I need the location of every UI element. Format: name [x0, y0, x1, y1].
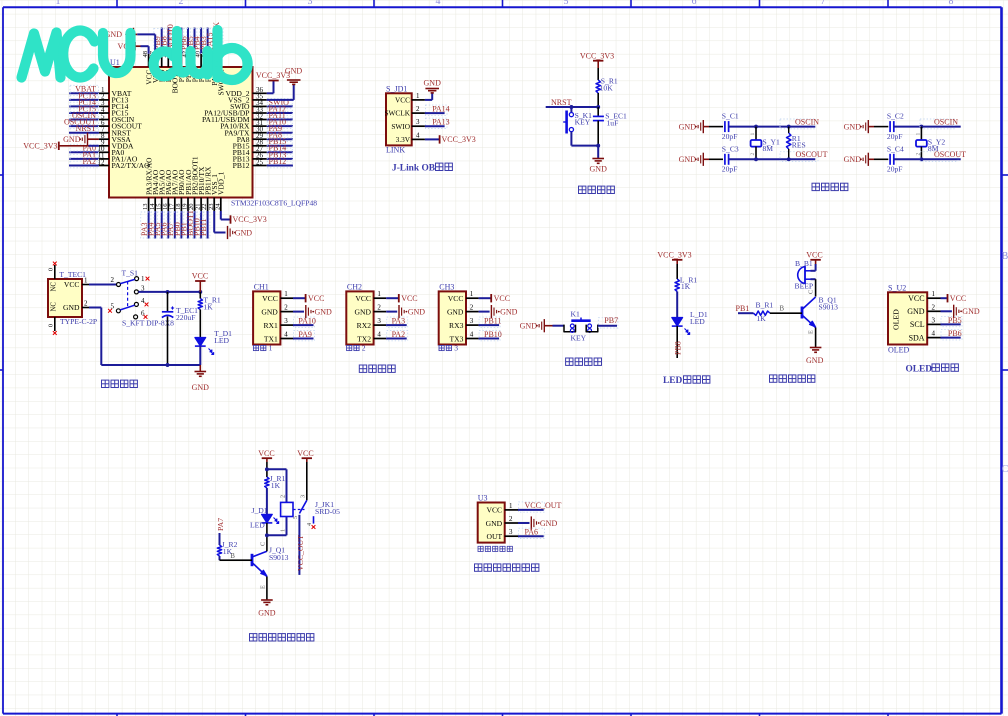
ground relay circuit	[258, 600, 276, 618]
wire rail to GND	[199, 365, 201, 371]
junction cap/key bottom	[596, 144, 600, 148]
svg-text:LED: LED	[663, 376, 683, 386]
svg-text:TYPE-C-2P: TYPE-C-2P	[60, 317, 97, 326]
net label PA9 at CH1 pin4	[293, 330, 315, 341]
wire U1 pin35 to GND	[267, 85, 294, 100]
U1 pin 32 (PA11/USB/DM)	[202, 111, 293, 124]
title metal detector circuit	[475, 564, 539, 571]
svg-text:1uF: 1uF	[607, 118, 619, 127]
svg-text:E: E	[260, 585, 267, 589]
svg-text:PA7: PA7	[216, 518, 225, 531]
svg-text:RES: RES	[792, 141, 806, 150]
svg-text:PA2: PA2	[83, 157, 97, 166]
net label OSCOUT	[780, 152, 818, 162]
U1 pin 16 (PA6/AO)	[160, 169, 173, 238]
svg-text:LED: LED	[214, 336, 229, 345]
svg-text:NRST: NRST	[551, 98, 572, 107]
svg-text:PA3: PA3	[392, 317, 406, 326]
svg-text:PB8: PB8	[673, 341, 682, 355]
svg-text:SWCLK: SWCLK	[384, 109, 410, 118]
U1 pin 5 (OSCIN)	[69, 111, 135, 124]
wire GND to S_C3	[709, 158, 723, 160]
svg-text:3: 3	[509, 528, 513, 536]
wire S_JD1 pin1 to GND	[425, 94, 432, 100]
display S_U2 body	[888, 292, 927, 344]
svg-text:1: 1	[377, 290, 381, 298]
svg-text:NC: NC	[51, 282, 58, 292]
power VCC buzzer	[806, 250, 822, 264]
title reset circuit	[579, 186, 615, 193]
connector T_TEC1 body	[48, 279, 82, 317]
U1 pin 7 (NRST)	[69, 124, 131, 137]
svg-text:LED: LED	[250, 521, 265, 530]
svg-text:VCC_OUT: VCC_OUT	[525, 501, 562, 510]
svg-text:VCC: VCC	[494, 294, 510, 303]
svg-text:1: 1	[470, 290, 474, 298]
svg-text:1: 1	[284, 290, 288, 298]
connector CH2 body	[346, 291, 373, 344]
power VCC at S_U2 pin1	[941, 294, 967, 303]
resistor R1 RES	[787, 127, 806, 160]
wire NRST	[546, 106, 599, 108]
svg-text:B: B	[1002, 251, 1008, 262]
junction R1 bottom	[787, 157, 791, 161]
svg-text:VCC_3V3: VCC_3V3	[23, 141, 57, 150]
svg-text:PA6: PA6	[525, 528, 539, 537]
svg-text:C: C	[260, 542, 267, 546]
wire S_C1 to OSCIN	[729, 126, 816, 128]
svg-text:1: 1	[416, 92, 420, 100]
net label PB10 at CH3 pin4	[479, 330, 502, 341]
CH3 pin 4 (TX3)	[449, 331, 478, 344]
net label PB6 at S_U2 pin4	[941, 329, 963, 340]
net label VCC_OUT at U3 pin1	[518, 501, 562, 512]
GND at U1 pin 8 (VSSA)	[63, 133, 99, 146]
buzzer B_B1 BEEP	[795, 259, 814, 290]
svg-text:U3: U3	[478, 494, 488, 503]
wire key bottom	[571, 132, 598, 146]
svg-text:OSCIN: OSCIN	[795, 117, 819, 126]
svg-text:VCC: VCC	[401, 294, 417, 303]
LED J_D1	[250, 506, 279, 530]
wire GND to S_C4	[874, 158, 888, 160]
svg-text:2: 2	[284, 304, 288, 312]
wire PA7 to J_R2	[219, 533, 221, 545]
U1 pin 30 (PA9/TX)	[224, 124, 292, 137]
power VCC_3V3 at U1 pin 36	[256, 71, 290, 81]
wire U1 pin23 VSS_1 to GND	[214, 211, 225, 233]
U1 pin 23 (VSS_1)	[208, 174, 219, 211]
svg-text:S_JD1: S_JD1	[386, 85, 407, 94]
svg-text:OLED: OLED	[906, 364, 933, 374]
CH3 value label	[439, 343, 458, 352]
key S_K1	[563, 107, 592, 134]
U1 pin 15 (PA5/AO)	[153, 169, 166, 238]
wire VCC to L_R1	[676, 264, 678, 279]
svg-text:20pF: 20pF	[722, 165, 738, 174]
svg-text:1K: 1K	[203, 302, 213, 311]
U1 pin 48 (VCC)	[142, 50, 153, 85]
ground at CH1 pin2	[293, 305, 332, 318]
svg-text:GND: GND	[679, 122, 697, 131]
power VCC relay switch	[297, 449, 313, 462]
svg-text:GND: GND	[520, 322, 538, 331]
wire switch pin3 to VCC rail	[138, 291, 200, 293]
svg-text:S_C2: S_C2	[887, 112, 904, 121]
resistor J_R1 1K	[265, 474, 286, 490]
svg-text:CH1: CH1	[254, 282, 269, 291]
svg-text:OLED: OLED	[892, 309, 901, 330]
svg-text:C: C	[1002, 464, 1008, 475]
ground at S_C4	[844, 153, 874, 166]
svg-text:VCC: VCC	[64, 280, 80, 289]
svg-text:4: 4	[416, 131, 420, 139]
CH3 pin 2 (GND)	[447, 304, 479, 317]
wire junction to relay coil top	[267, 469, 287, 502]
connector S_JD1 body	[386, 93, 412, 145]
U1 pin 47 (VSS)	[149, 50, 160, 83]
power VCC_3V3 reset circuit	[580, 52, 614, 69]
svg-text:2: 2	[111, 276, 115, 284]
net label OSCIN 2	[920, 119, 954, 129]
wire S_C2 to OSCIN	[894, 126, 961, 128]
wire emitter to GND	[266, 577, 268, 600]
svg-text:CH2: CH2	[347, 282, 362, 291]
net label PA6 at U3 pin3	[518, 528, 545, 539]
svg-text:PB5: PB5	[948, 316, 962, 325]
wire K1 to PB7	[598, 318, 618, 328]
svg-text:B_R1: B_R1	[756, 300, 774, 309]
wire J_D1 to junction	[266, 523, 268, 541]
wire T_R1 to T_D1	[199, 310, 201, 338]
wire L_R1 to L_D1	[676, 292, 678, 318]
svg-text:PB11: PB11	[484, 317, 502, 326]
svg-text:PA9: PA9	[298, 330, 312, 339]
CH2 pin 3 (RX2)	[357, 317, 387, 330]
junction at VCC column	[198, 290, 202, 294]
junction relay coil top	[265, 467, 269, 471]
svg-text:GND: GND	[962, 307, 980, 316]
power VCC power-circuit	[192, 272, 208, 292]
svg-text:TX2: TX2	[357, 334, 371, 343]
title buzzer circuit	[770, 375, 815, 382]
svg-text:B_B1: B_B1	[795, 259, 813, 268]
ground at S_C3	[679, 153, 709, 166]
svg-text:J_D1: J_D1	[252, 506, 268, 515]
svg-text:TX3: TX3	[449, 334, 463, 343]
svg-text:SRD-05: SRD-05	[315, 507, 340, 516]
CH3 pin 3 (RX3)	[449, 317, 479, 330]
S_JD1 pin 3 (SWIO)	[391, 118, 425, 131]
svg-text:VCC_OUT: VCC_OUT	[296, 535, 305, 571]
capacitor S_EC1 1uF	[593, 107, 627, 146]
svg-text:VCC: VCC	[908, 294, 924, 303]
ground at CH3 pin2	[479, 305, 518, 318]
ground at S_U2 pin2	[941, 305, 980, 318]
CH1 pin 2 (GND)	[261, 304, 293, 317]
svg-text:1: 1	[56, 0, 61, 7]
svg-text:1K: 1K	[681, 282, 691, 291]
svg-text:GND: GND	[63, 135, 81, 144]
svg-text:VCC_3V3: VCC_3V3	[657, 250, 691, 259]
S_JD1 pin 1 (VCC)	[395, 92, 425, 105]
relay armature contact	[292, 500, 315, 529]
wire pin1 VCC to switch	[89, 284, 117, 286]
connector CH1 body	[253, 291, 280, 344]
svg-text:2: 2	[279, 495, 286, 498]
svg-text:RX2: RX2	[357, 321, 372, 330]
svg-text:S_C3: S_C3	[722, 144, 739, 153]
svg-text:7: 7	[821, 0, 826, 7]
svg-text:GND: GND	[486, 519, 503, 528]
svg-text:KEY: KEY	[571, 334, 587, 343]
title J-Link OB interface	[392, 163, 452, 173]
junction R1 top	[787, 125, 791, 129]
power VCC_3V3 at U1 pin 9 (VDDA)	[23, 141, 99, 150]
svg-text:NRST: NRST	[76, 124, 97, 133]
U3 value label metal detector	[478, 546, 512, 551]
ground at S_JD1 pin1	[424, 79, 442, 93]
crystal S_Y2 8M	[915, 127, 945, 160]
svg-text:GND: GND	[907, 307, 925, 316]
T_TEC1 shield pin top	[48, 262, 57, 279]
svg-text:RX3: RX3	[449, 321, 464, 330]
U1 pin 1 (VBAT)	[69, 85, 132, 98]
LED T_D1	[195, 329, 232, 355]
svg-text:SDA: SDA	[909, 333, 925, 342]
svg-text:S_U2: S_U2	[888, 283, 906, 292]
svg-text:8: 8	[949, 0, 954, 7]
wire S_C4 to OSCOUT	[894, 158, 961, 160]
CH2 value label	[347, 343, 366, 352]
svg-text:PB6: PB6	[948, 329, 962, 338]
U3 pin 2 (GND)	[486, 515, 518, 528]
power VCC at CH1 pin1	[293, 294, 324, 303]
svg-text:LED: LED	[690, 317, 705, 326]
svg-text:NC: NC	[51, 302, 58, 312]
svg-text:S_C4: S_C4	[887, 144, 904, 153]
T_TEC1 pin2 stub	[82, 300, 89, 308]
CH2 pin 2 (GND)	[355, 304, 387, 317]
svg-text:10K: 10K	[600, 83, 614, 92]
junction at T_EC1 top	[166, 290, 170, 294]
junction at key top	[569, 105, 573, 109]
U1 pin 8 (VSSA)	[99, 132, 132, 144]
svg-text:220uF: 220uF	[176, 313, 195, 322]
svg-text:S_KFT DIP-8X8: S_KFT DIP-8X8	[122, 319, 174, 328]
svg-text:3.3V: 3.3V	[396, 135, 411, 144]
net label OSCOUT 2	[920, 152, 958, 162]
svg-text:2: 2	[750, 153, 756, 156]
svg-text:PA13: PA13	[432, 118, 450, 127]
svg-text:20pF: 20pF	[887, 165, 903, 174]
svg-text:VCC: VCC	[486, 506, 502, 515]
ground at CH2 pin2	[386, 305, 425, 318]
wire buzzer top to VCC	[811, 264, 816, 271]
svg-text:1: 1	[279, 529, 286, 532]
ground at S_C2	[844, 120, 874, 133]
svg-text:GND: GND	[261, 307, 278, 316]
svg-text:PB1: PB1	[736, 304, 750, 313]
title LED lamp circuit	[663, 376, 710, 386]
svg-text:2: 2	[377, 304, 381, 312]
svg-text:OSCIN: OSCIN	[934, 117, 958, 126]
wire J_R1 to J_D1	[266, 488, 268, 514]
svg-text:GND: GND	[806, 356, 824, 365]
ground at U1 pin 35	[285, 67, 303, 85]
title crystal circuit	[812, 183, 848, 190]
svg-text:3: 3	[284, 317, 288, 325]
switch T_S1 (S_KFT DIP-8X8)	[108, 269, 174, 328]
svg-text:1: 1	[269, 343, 273, 352]
wire buzzer bottom to collector	[808, 279, 816, 296]
T_TEC1 pin1 stub	[82, 277, 89, 285]
U1 pin 27 (PB14)	[233, 144, 293, 157]
U1 pin 12 (PA2/TX/AO)	[69, 157, 150, 170]
svg-text:B: B	[230, 553, 235, 560]
transistor B_Q1 S9013	[802, 296, 838, 328]
ground at S_C1	[679, 120, 709, 133]
svg-text:3: 3	[470, 317, 474, 325]
svg-text:T_TEC1: T_TEC1	[59, 270, 86, 279]
svg-text:PA10: PA10	[298, 317, 316, 326]
svg-text:KEY: KEY	[575, 118, 591, 127]
U1 pin 42 (PB6)	[179, 28, 192, 83]
border zone numerals	[56, 0, 1008, 475]
net label PB5 at S_U2 pin3	[941, 316, 963, 327]
svg-text:OLED: OLED	[888, 346, 910, 355]
module U3 body	[478, 503, 505, 543]
CH3 pin 1 (VCC)	[448, 290, 479, 303]
svg-text:VDD_1: VDD_1	[217, 171, 226, 195]
S_U2 pin 3 (SCL)	[910, 316, 941, 329]
wire VCC to junction	[266, 462, 268, 477]
U3 pin 3 (OUT)	[486, 528, 518, 541]
resistor B_R1 1K	[754, 300, 774, 323]
U1 pin 6 (OSCOUT)	[64, 118, 142, 131]
T_TEC1 shield pin bottom	[48, 317, 57, 335]
svg-text:S_C1: S_C1	[722, 112, 739, 121]
U1 pin 26 (PB13)	[233, 150, 293, 163]
junction relay coil bottom	[265, 533, 269, 537]
wire U1 pin48 to VCC	[141, 46, 149, 54]
svg-text:VCC: VCC	[262, 294, 278, 303]
junction crystal top	[754, 125, 758, 129]
svg-text:4: 4	[284, 331, 288, 339]
ground power circuit	[192, 372, 210, 393]
S_U2 pin 4 (SDA)	[909, 330, 941, 343]
svg-text:1: 1	[141, 275, 145, 283]
ground buzzer	[806, 348, 824, 366]
svg-text:2: 2	[179, 0, 184, 7]
svg-text:RX1: RX1	[263, 321, 278, 330]
svg-text:6: 6	[692, 0, 697, 7]
ground at key K1	[520, 319, 553, 332]
CH2 pin 4 (TX2)	[357, 331, 386, 344]
crystal S_Y1 8M	[750, 127, 780, 160]
svg-text:SCL: SCL	[910, 320, 925, 329]
svg-text:LINK: LINK	[386, 146, 405, 155]
svg-text:GND: GND	[590, 165, 608, 174]
svg-text:2: 2	[915, 153, 921, 156]
U1 pin 9 (VDDA)	[99, 139, 134, 151]
svg-text:GND: GND	[285, 67, 303, 76]
svg-text:GND: GND	[447, 307, 464, 316]
svg-text:S9013: S9013	[819, 303, 839, 312]
U1 pin 18 (PB0/AO)	[173, 169, 186, 239]
svg-text:3: 3	[416, 118, 420, 126]
resistor T_R1 1K	[198, 292, 221, 311]
resistor S_R1 10K	[596, 76, 618, 93]
net label PA2 at CH2 pin4	[386, 330, 408, 341]
svg-text:GND: GND	[540, 519, 558, 528]
svg-text:OUT: OUT	[486, 532, 502, 541]
U1 pin 37 (SWCLK)	[212, 22, 225, 96]
S_JD1 pin 4 (3.3V)	[396, 131, 425, 144]
svg-text:GND: GND	[679, 155, 697, 164]
U1 pin 17 (PA7/AO)	[166, 169, 179, 238]
svg-text:1: 1	[915, 133, 921, 136]
svg-text:GND: GND	[844, 122, 862, 131]
svg-text:4: 4	[932, 330, 936, 338]
svg-text:1K: 1K	[271, 481, 281, 490]
svg-text:3: 3	[299, 495, 306, 498]
LED L_D1	[672, 310, 708, 335]
U1 pin 3 (PC14)	[69, 98, 129, 111]
svg-text:PA2: PA2	[392, 330, 406, 339]
svg-text:OSCOUT: OSCOUT	[796, 150, 828, 159]
power VCC at U1 pin 48	[118, 42, 141, 51]
svg-text:PB7: PB7	[604, 316, 618, 325]
svg-text:K1: K1	[571, 309, 580, 318]
net label PA14 wire	[425, 105, 450, 116]
key K1 KEY	[564, 309, 598, 342]
CH1 value label	[253, 343, 272, 352]
U1 pin 20 (PB2/BOOT1)	[186, 156, 199, 238]
svg-text:VCC: VCC	[395, 96, 410, 105]
svg-text:3: 3	[454, 343, 458, 352]
svg-text:2: 2	[84, 300, 88, 308]
svg-text:VCC: VCC	[448, 294, 464, 303]
svg-text:GND: GND	[192, 383, 210, 392]
U1 pin 21 (PB10/TX)	[193, 166, 206, 238]
svg-text:SWIO: SWIO	[391, 122, 410, 131]
svg-text:GND: GND	[63, 303, 80, 312]
power VCC at CH3 pin1	[479, 294, 510, 303]
svg-text:PB11: PB11	[199, 219, 208, 237]
CH1 pin 1 (VCC)	[262, 290, 293, 303]
net label PA13 wire	[425, 118, 450, 129]
wire B_R1 to base	[770, 306, 802, 314]
svg-text:PB12: PB12	[233, 161, 250, 170]
svg-text:TX1: TX1	[264, 334, 278, 343]
capacitor S_C1 20pF	[722, 112, 739, 141]
wire GND to K1	[553, 325, 565, 327]
svg-text:2: 2	[932, 303, 936, 311]
power VCC_3V3 LED circuit	[657, 250, 691, 264]
svg-text:4: 4	[377, 331, 381, 339]
svg-text:GND: GND	[258, 609, 276, 618]
ground at U1 pin 23	[228, 226, 253, 239]
capacitor S_C4 20pF	[887, 144, 904, 173]
wire U1 pin47 to GND	[137, 34, 155, 53]
svg-text:2: 2	[470, 304, 474, 312]
U1 pin 4 (PC15)	[69, 104, 129, 117]
connector CH3 body	[439, 291, 466, 344]
svg-text:20pF: 20pF	[887, 132, 903, 141]
title OLED display	[906, 364, 959, 374]
U1 pin 35 (VSS_2)	[228, 93, 267, 105]
